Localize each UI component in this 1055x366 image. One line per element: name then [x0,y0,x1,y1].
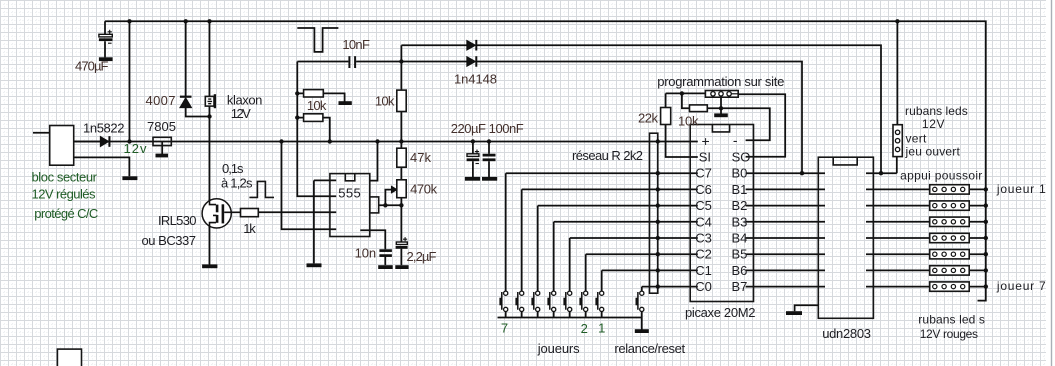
svg-text:SO: SO [732,150,751,165]
svg-text:udn2803: udn2803 [822,326,871,341]
svg-text:C0: C0 [695,279,712,294]
svg-text:vert: vert [906,132,928,146]
svg-text:B4: B4 [732,231,748,246]
svg-text:12V rouges: 12V rouges [920,327,978,341]
svg-text:protégé C/C: protégé C/C [34,206,98,221]
svg-text:IRL530: IRL530 [158,213,197,228]
svg-text:B1: B1 [732,182,748,197]
svg-text:4007: 4007 [146,93,176,108]
svg-text:appui poussoir: appui poussoir [900,169,982,183]
svg-text:C7: C7 [695,166,712,181]
svg-text:+: + [702,133,710,149]
svg-text:1: 1 [598,320,605,335]
svg-text:10n: 10n [355,246,377,261]
svg-text:12V: 12V [922,117,945,131]
svg-text:B6: B6 [732,263,748,278]
svg-text:10k: 10k [678,113,699,128]
svg-text:12v: 12v [124,141,148,156]
svg-text:C2: C2 [695,247,712,262]
svg-text:7: 7 [501,320,508,335]
svg-text:à 1,2s: à 1,2s [221,176,253,191]
svg-text:B0: B0 [732,166,748,181]
svg-text:joueur 7: joueur 7 [996,279,1046,293]
svg-text:C3: C3 [695,231,712,246]
svg-text:rubans leds: rubans leds [905,104,968,118]
svg-text:12V: 12V [231,106,251,121]
svg-text:SI: SI [699,150,711,165]
svg-text:10k: 10k [375,94,395,109]
svg-text:rubans led s: rubans led s [918,313,985,327]
svg-text:10k: 10k [307,98,327,113]
svg-text:B5: B5 [732,247,748,262]
svg-text:470k: 470k [410,182,438,197]
svg-text:220µF 100nF: 220µF 100nF [451,121,524,136]
svg-text:réseau R 2k2: réseau R 2k2 [572,148,643,163]
svg-text:2,2µF: 2,2µF [407,249,437,264]
svg-text:jeu ouvert: jeu ouvert [905,145,961,159]
svg-text:1k: 1k [243,221,256,236]
svg-text:joueur 1: joueur 1 [996,182,1046,196]
svg-text:picaxe 20M2: picaxe 20M2 [685,305,756,320]
svg-text:0,1s: 0,1s [222,161,244,176]
svg-text:10nF: 10nF [342,37,370,52]
svg-text:B3: B3 [732,214,748,229]
svg-text:bloc secteur: bloc secteur [32,170,98,185]
svg-text:470µF: 470µF [75,59,109,74]
svg-text:B2: B2 [732,198,748,213]
svg-text:C1: C1 [695,263,712,278]
svg-text:1n4148: 1n4148 [454,72,497,87]
svg-text:C6: C6 [695,182,712,197]
svg-text:7805: 7805 [147,119,176,134]
svg-text:programmation sur site: programmation sur site [657,74,784,89]
svg-text:1n5822: 1n5822 [83,120,125,135]
svg-text:relance/reset: relance/reset [614,341,685,356]
svg-text:555: 555 [338,185,361,200]
svg-text:12V régulés: 12V régulés [32,186,97,201]
svg-text:47k: 47k [410,150,432,165]
svg-text:C4: C4 [695,214,712,229]
svg-text:22k: 22k [638,111,659,126]
svg-text:joueurs: joueurs [537,341,580,356]
svg-text:C5: C5 [695,198,712,213]
svg-text:ou BC337: ou BC337 [142,233,197,248]
svg-text:-: - [733,132,738,148]
svg-text:2: 2 [581,321,588,336]
svg-text:B7: B7 [732,279,748,294]
